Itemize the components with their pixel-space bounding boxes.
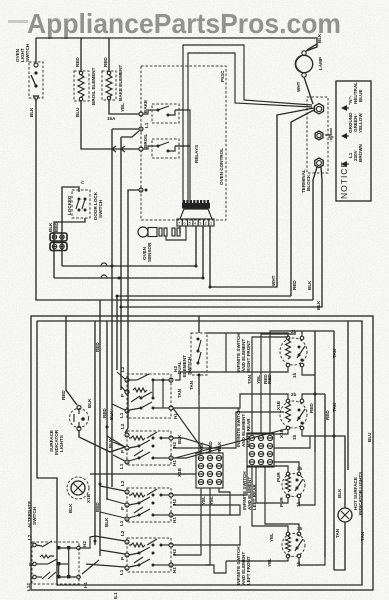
svg-text:L12: L12 <box>26 583 31 591</box>
alternate switch <box>26 534 99 591</box>
svg-text:RED: RED <box>309 403 314 413</box>
ELEMENT BOX right rear <box>119 423 182 477</box>
node BAKE terminal <box>139 100 152 116</box>
svg-text:2b: 2b <box>297 526 303 531</box>
infinite switch left rear label <box>242 471 257 510</box>
bottom section inner frame wire <box>37 321 362 585</box>
node terminal N <box>315 104 324 114</box>
svg-text:LOCKED: LOCKED <box>67 195 72 215</box>
svg-text:TAN: TAN <box>177 388 182 398</box>
svg-text:NOTICE: NOTICE <box>339 161 349 199</box>
node DLB terminal on oven control <box>125 188 148 433</box>
wire L1 verticals down to surface section <box>112 129 121 487</box>
wire to C1 <box>66 316 125 452</box>
svg-text:RED: RED <box>102 408 107 418</box>
svg-text:YEL: YEL <box>120 103 125 112</box>
svg-text:P: P <box>120 507 125 510</box>
svg-text:YEL: YEL <box>267 558 272 567</box>
wire with 15A fuse from bake element to BAKE terminal <box>107 100 139 121</box>
svg-text:SWITCH: SWITCH <box>25 43 30 62</box>
svg-text:2b: 2b <box>291 392 297 397</box>
oven sensor <box>138 227 180 262</box>
svg-text:YEL: YEL <box>269 533 274 542</box>
relay bake <box>152 104 179 123</box>
wire BLK door lock <box>48 187 79 266</box>
wire hop bumps on rails <box>101 263 107 278</box>
svg-text:OVEN CONTROL: OVEN CONTROL <box>219 148 224 185</box>
svg-text:TAN: TAN <box>332 402 337 412</box>
svg-text:YELLOW: YELLOW <box>358 113 363 133</box>
connector block A <box>196 441 223 505</box>
dial right front <box>267 329 307 384</box>
top rail wire <box>36 38 317 50</box>
svg-text:L1: L1 <box>119 569 124 575</box>
wire RED door lock <box>54 218 85 278</box>
ELEMENT BOX right front (dual element) <box>119 366 182 419</box>
svg-text:BLK: BLK <box>87 398 92 408</box>
right rails TAN <box>315 321 372 570</box>
svg-text:IL1: IL1 <box>113 592 118 599</box>
svg-text:SWITCH: SWITCH <box>98 199 103 218</box>
wire BLU from broil element to BROIL terminal <box>75 101 139 149</box>
svg-text:BLK: BLK <box>29 107 34 117</box>
node terminal ground <box>315 131 323 140</box>
svg-text:L1: L1 <box>119 520 124 526</box>
wire RED to broil element <box>75 38 81 71</box>
dial left rear <box>276 466 305 507</box>
node terminal L1 <box>315 158 323 168</box>
svg-text:H1: H1 <box>172 460 177 466</box>
svg-text:BLK: BLK <box>307 280 312 290</box>
svg-text:WHT: WHT <box>271 275 276 286</box>
svg-text:BROWN: BROWN <box>358 143 363 162</box>
svg-text:H1: H1 <box>83 582 88 588</box>
wire BLK from oven light switch <box>29 38 313 300</box>
feed verticals bottom section <box>95 296 117 556</box>
hot surface indicator light <box>310 436 365 570</box>
svg-text:TAN: TAN <box>335 528 340 538</box>
svg-text:L2: L2 <box>120 423 125 429</box>
svg-text:BLK: BLK <box>316 300 321 310</box>
svg-text:RED: RED <box>95 502 100 512</box>
ground symbol <box>325 128 334 141</box>
svg-text:SWITCH: SWITCH <box>32 506 37 525</box>
node BROIL terminal <box>139 134 152 151</box>
wire rail y287 <box>209 226 211 287</box>
svg-text:LIGHTS: LIGHTS <box>59 435 64 452</box>
oven light switch label <box>15 43 30 62</box>
wire WHT lamp to terminal <box>296 77 313 104</box>
svg-text:BLK: BLK <box>104 517 109 527</box>
lamp <box>295 51 323 77</box>
wire sensor to connector <box>166 226 186 240</box>
svg-text:RED: RED <box>54 222 59 232</box>
svg-text:BLK: BLK <box>177 434 182 444</box>
indicator light C1 <box>61 390 92 431</box>
door lock switch <box>67 180 103 220</box>
wire RED to bake element <box>103 38 109 71</box>
junction arrows on broil wire <box>112 146 125 152</box>
wire WHT down <box>210 108 314 287</box>
svg-text:BAKE ELEMENT: BAKE ELEMENT <box>118 65 123 101</box>
svg-text:BROIL ELEMENT: BROIL ELEMENT <box>91 67 96 105</box>
svg-text:BLU: BLU <box>75 107 80 117</box>
oven control box <box>141 66 226 220</box>
svg-text:H2: H2 <box>82 541 87 547</box>
dual element switch <box>177 316 207 395</box>
svg-text:TAN: TAN <box>247 374 252 384</box>
svg-text:RED: RED <box>61 390 66 400</box>
wire BLK pair from L1 terminal <box>121 167 322 310</box>
svg-text:AppliancePartsPros.com: AppliancePartsPros.com <box>27 8 341 39</box>
wire rail y278 <box>54 226 203 278</box>
svg-text:P: P <box>120 394 125 397</box>
svg-text:BLOCK: BLOCK <box>306 174 311 191</box>
svg-text:BLK: BLK <box>109 410 114 420</box>
connector block B <box>247 433 274 467</box>
svg-text:SENSOR: SENSOR <box>147 242 152 262</box>
relay broil <box>152 139 179 158</box>
svg-text:L2: L2 <box>27 534 32 540</box>
svg-text:1b: 1b <box>292 372 297 378</box>
indicator light surface <box>67 408 114 513</box>
svg-text:TAN: TAN <box>360 531 365 541</box>
wire L1 bus below right rear box <box>90 473 196 475</box>
svg-text:INDICATOR LIGHTS: INDICATOR LIGHTS <box>358 472 363 515</box>
oven light switch <box>29 62 43 101</box>
broil element <box>74 67 96 105</box>
inline connector pair on door lock wires <box>50 233 67 251</box>
svg-text:RIGHT FRONT: RIGHT FRONT <box>246 340 251 372</box>
svg-text:RED: RED <box>292 280 297 290</box>
svg-text:TAN: TAN <box>189 380 194 390</box>
svg-text:1b: 1b <box>292 434 297 440</box>
svg-text:H1: H1 <box>172 517 177 523</box>
wire pin6 to terminal N <box>183 45 312 204</box>
svg-text:RED: RED <box>103 57 108 67</box>
wire rail y266 <box>62 226 196 266</box>
svg-text:L2: L2 <box>120 366 125 372</box>
svg-text:RED: RED <box>75 57 80 67</box>
svg-text:BLK: BLK <box>48 222 53 232</box>
infinite switch left front label <box>236 546 251 585</box>
svg-text:X1B: X1B <box>177 467 182 477</box>
svg-text:WHT: WHT <box>296 81 301 92</box>
node L1 terminal <box>112 122 149 137</box>
wire rail y296 <box>117 295 291 297</box>
svg-text:TAN: TAN <box>332 348 337 358</box>
svg-text:L2: L2 <box>120 530 125 536</box>
wire pin7 to terminal N <box>188 53 312 204</box>
svg-text:P: P <box>120 557 125 560</box>
svg-text:H2: H2 <box>172 499 177 505</box>
svg-text:P51C: P51C <box>220 70 225 82</box>
bottom section outer frame <box>31 316 373 590</box>
svg-text:RED: RED <box>263 374 268 384</box>
svg-text:L2: L2 <box>120 480 125 486</box>
svg-text:YEL: YEL <box>201 496 206 505</box>
wire bus right of relays <box>175 110 190 204</box>
relays box label <box>194 145 199 163</box>
wire RED down <box>291 110 314 296</box>
watermark AppliancePartsPros.com <box>8 8 341 39</box>
surface indicator lights label <box>49 429 64 455</box>
svg-text:PUR: PUR <box>279 497 284 507</box>
svg-text:BAKE: BAKE <box>143 100 148 113</box>
bake element <box>102 65 123 101</box>
wire labels TAN YEL RED block B columns <box>247 374 268 384</box>
dial left front <box>267 526 305 567</box>
svg-text:L1: L1 <box>119 463 124 469</box>
svg-text:15A: 15A <box>107 116 116 121</box>
ELEMENT BOX left rear <box>119 480 177 526</box>
svg-text:P: P <box>120 450 125 453</box>
svg-text:H2: H2 <box>172 549 177 555</box>
dial right rear <box>276 392 330 440</box>
feed diagonal wires to boxes <box>86 372 125 567</box>
svg-text:L1: L1 <box>144 122 149 128</box>
svg-text:X1B: X1B <box>276 400 281 410</box>
svg-text:LAMP: LAMP <box>318 57 323 70</box>
svg-text:YEL: YEL <box>256 375 261 384</box>
svg-text:L1: L1 <box>119 412 124 418</box>
svg-text:BLK: BLK <box>317 33 322 43</box>
svg-text:2b: 2b <box>297 466 303 471</box>
svg-text:BLU: BLU <box>367 432 372 442</box>
svg-text:BLK: BLK <box>337 488 342 498</box>
control board connector <box>177 200 214 226</box>
svg-text:RED: RED <box>325 410 330 420</box>
svg-text:PUR: PUR <box>276 472 281 482</box>
svg-text:X1B: X1B <box>86 493 91 503</box>
infinite switch right front label <box>236 333 251 372</box>
svg-text:BROIL: BROIL <box>143 134 148 148</box>
svg-text:RED: RED <box>95 342 100 352</box>
node IL1 label <box>113 592 118 599</box>
svg-text:BLUE: BLUE <box>358 89 363 102</box>
svg-text:RELAYS: RELAYS <box>194 145 199 163</box>
svg-text:BLK: BLK <box>68 503 73 513</box>
infinite switch right rear label <box>236 408 251 447</box>
dial connection wires <box>173 331 334 573</box>
ELEMENT BOX left front <box>119 530 177 575</box>
wire BLK lamp <box>306 33 322 51</box>
svg-text:H1: H1 <box>172 567 177 573</box>
notice box <box>336 81 371 201</box>
terminal block <box>301 97 328 193</box>
alternate switch label <box>27 501 37 528</box>
